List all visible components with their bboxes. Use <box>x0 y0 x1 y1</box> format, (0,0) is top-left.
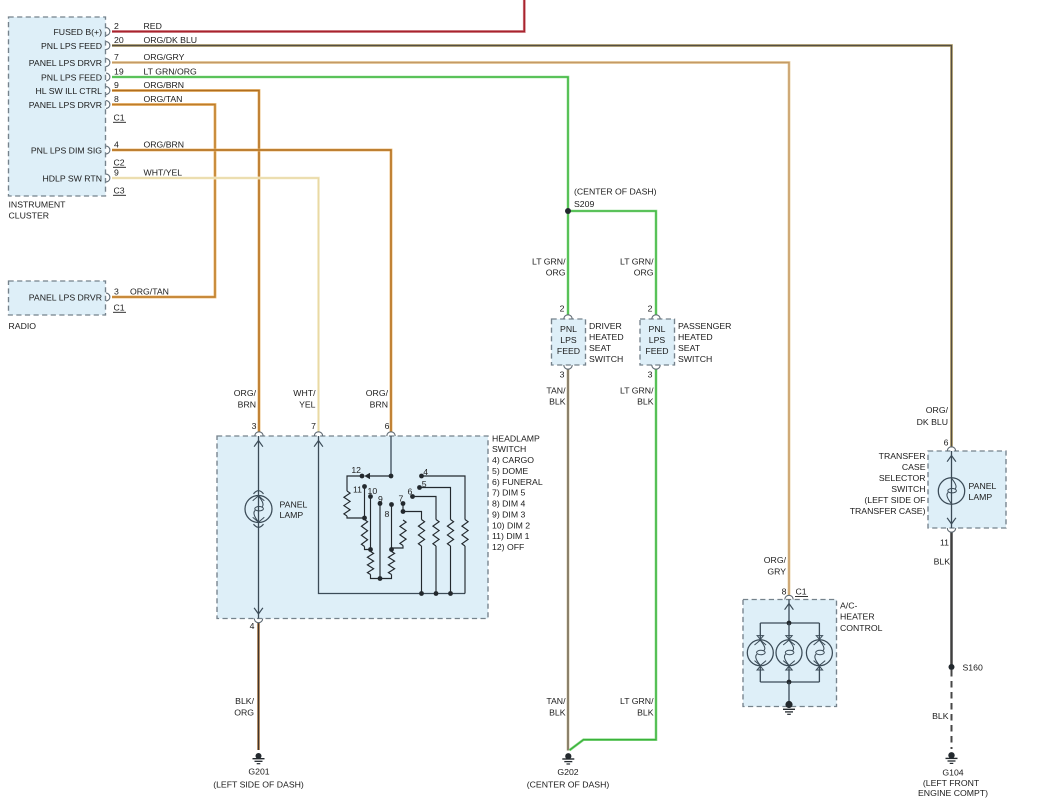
cluster connector C1 label <box>113 113 126 123</box>
arrow up at A/C pin 8 <box>785 604 794 610</box>
svg-text:6: 6 <box>385 421 390 431</box>
wire ORG/BRN from cluster pin 9 to headlamp switch pin 3 <box>112 91 259 432</box>
svg-text:CASE: CASE <box>902 462 926 472</box>
headlamp switch internal wire pin 6 to wiper <box>390 436 392 476</box>
svg-text:11: 11 <box>940 537 949 547</box>
A/C bottom rail <box>760 666 819 685</box>
passenger seat switch PNL LPS FEED text <box>645 324 668 356</box>
wire BLK dashed from S160 to ground G104 <box>951 670 953 749</box>
svg-text:BRN: BRN <box>370 400 388 410</box>
label S209 (CENTER OF DASH) <box>574 187 657 210</box>
label ORG/BRN above pin 6 <box>366 388 389 410</box>
junction 8 <box>389 547 394 552</box>
contact 5 <box>417 479 427 490</box>
svg-text:PANEL LPS DRVR: PANEL LPS DRVR <box>29 100 102 110</box>
splice S160 <box>949 664 955 670</box>
transfer case internal wire <box>951 451 953 528</box>
radio connector C1 label <box>113 303 126 313</box>
driver seat switch caption <box>589 321 624 364</box>
panel lamp caption <box>280 500 308 521</box>
wire ORG/BRN from cluster pin 4 to headlamp switch pin 6 <box>112 150 391 432</box>
svg-text:PNL: PNL <box>649 324 666 334</box>
transfer case pin 11 <box>940 528 956 547</box>
resistor 12-11 <box>344 491 350 516</box>
A/C-heater control caption <box>840 601 883 634</box>
svg-text:BLK: BLK <box>932 711 949 721</box>
svg-text:HL SW ILL CTRL: HL SW ILL CTRL <box>36 86 103 96</box>
svg-text:7: 7 <box>399 494 404 504</box>
wire resistor 6 to bus <box>434 546 439 596</box>
svg-text:BLK: BLK <box>549 396 566 406</box>
svg-text:YEL: YEL <box>299 400 316 410</box>
wire resistor to junction 9 <box>371 575 381 579</box>
transfer case panel lamp caption <box>969 481 997 502</box>
transfer case selector switch box <box>928 451 1006 528</box>
svg-text:10) DIM 2: 10) DIM 2 <box>492 520 530 530</box>
wire contact 5 to resistor <box>420 488 451 520</box>
svg-text:A/C-: A/C- <box>840 601 857 611</box>
A/C top rail <box>760 621 819 626</box>
svg-text:HEATED: HEATED <box>678 332 713 342</box>
svg-text:RED: RED <box>144 21 162 31</box>
wire resistor 5 to bus <box>448 546 453 596</box>
svg-text:SWITCH: SWITCH <box>589 354 623 364</box>
svg-text:GRY: GRY <box>767 567 786 577</box>
A/C internal ground wire <box>788 682 790 705</box>
svg-text:12: 12 <box>351 465 361 475</box>
svg-text:C1: C1 <box>114 113 125 123</box>
cluster pin 9 HDLP SW RTN / WHT/YEL <box>42 168 182 184</box>
svg-text:HEATER: HEATER <box>840 612 875 622</box>
svg-text:SWITCH: SWITCH <box>891 484 925 494</box>
cluster pin 19 PNL LPS FEED / LT GRN/ORG <box>41 67 197 83</box>
label S160 <box>963 663 983 673</box>
contact 6 <box>408 487 415 499</box>
wire TAN/BLK from driver heated seat switch pin 3 to ground G202 <box>567 369 570 750</box>
svg-text:7: 7 <box>114 52 119 62</box>
arrow down at headlamp pin 4 <box>254 608 263 614</box>
wire LT GRN/ORG branch from S209 to passenger heated seat switch pin 2 <box>568 211 656 315</box>
svg-text:ENGINE COMPT): ENGINE COMPT) <box>918 788 988 798</box>
svg-text:3: 3 <box>648 369 653 379</box>
svg-text:6: 6 <box>944 437 949 447</box>
contact 11 <box>353 484 367 494</box>
label G202 <box>527 767 610 790</box>
svg-text:BLK/: BLK/ <box>235 696 254 706</box>
svg-text:10: 10 <box>368 486 378 496</box>
svg-text:LPS: LPS <box>560 335 577 345</box>
svg-text:LT GRN/: LT GRN/ <box>620 256 654 266</box>
resistor contact 7 branch <box>418 520 424 547</box>
label WHT/YEL above pin 7 <box>293 388 316 410</box>
svg-text:DK BLU: DK BLU <box>917 417 948 427</box>
svg-text:TRANSFER: TRANSFER <box>879 451 926 461</box>
svg-text:7: 7 <box>311 421 316 431</box>
svg-text:SWITCH: SWITCH <box>678 354 712 364</box>
ground G201 <box>253 753 265 764</box>
svg-text:BLK: BLK <box>637 396 654 406</box>
label LT GRN/ORG left branch <box>532 256 566 277</box>
wire resistor 4 to bus <box>464 546 466 594</box>
cluster pin 2 FUSED B(+) / RED <box>53 21 161 37</box>
svg-text:8: 8 <box>114 94 119 104</box>
svg-text:SWITCH: SWITCH <box>492 444 526 454</box>
svg-text:HDLP SW RTN: HDLP SW RTN <box>42 173 102 183</box>
svg-text:2: 2 <box>560 304 565 314</box>
svg-text:8) DIM 4: 8) DIM 4 <box>492 499 525 509</box>
contact 12 <box>351 465 364 478</box>
cluster pin 4 PNL LPS DIM SIG / ORG/BRN <box>31 140 184 156</box>
svg-text:HEATED: HEATED <box>589 332 624 342</box>
radio pin 3 PANEL LPS DRVR / ORG/TAN <box>29 287 169 303</box>
driver seat switch pin 2 <box>560 304 573 320</box>
label G104 <box>918 767 988 798</box>
wire ORG/GRY from cluster pin 7 to A/C-heater control pin 8 <box>112 63 789 596</box>
svg-text:ORG/: ORG/ <box>926 405 949 415</box>
headlamp switch pin 4 <box>250 619 263 632</box>
svg-text:PNL LPS FEED: PNL LPS FEED <box>41 41 102 51</box>
resistor 11-10 <box>361 520 367 547</box>
label BLK upper right <box>934 557 951 567</box>
svg-text:11) DIM 1: 11) DIM 1 <box>492 531 530 541</box>
svg-text:ORG/TAN: ORG/TAN <box>130 287 169 297</box>
svg-text:C3: C3 <box>114 186 125 196</box>
label LT GRN/BLK lower <box>620 696 654 718</box>
svg-text:(LEFT FRONT: (LEFT FRONT <box>923 778 980 788</box>
svg-text:BLK: BLK <box>934 557 951 567</box>
splice S209 <box>565 208 571 214</box>
cluster pin 20 PNL LPS FEED / ORG/DK BLU <box>41 35 197 51</box>
svg-text:3: 3 <box>560 369 565 379</box>
svg-text:BLK: BLK <box>549 708 566 718</box>
arrow up at transfer pin 6 <box>947 456 956 462</box>
svg-text:TRANSFER CASE): TRANSFER CASE) <box>850 506 926 516</box>
wire resistor to bus <box>419 546 424 596</box>
svg-text:(LEFT SIDE OF: (LEFT SIDE OF <box>864 495 925 505</box>
label BLK lower right <box>932 711 949 721</box>
svg-text:6) FUNERAL: 6) FUNERAL <box>492 477 543 487</box>
wire resistor 8-9 to junction 9 <box>380 575 392 579</box>
svg-text:FUSED B(+): FUSED B(+) <box>53 27 102 37</box>
headlamp switch box <box>217 436 488 619</box>
wire WHT/YEL from cluster pin 9 C3 to headlamp switch pin 7 <box>112 178 319 432</box>
svg-text:4) CARGO: 4) CARGO <box>492 455 534 465</box>
svg-text:3: 3 <box>114 287 119 297</box>
illumination lamp 2 <box>776 636 802 670</box>
wire junction 7 to resistor <box>403 512 422 520</box>
svg-text:(LEFT SIDE OF DASH): (LEFT SIDE OF DASH) <box>213 780 304 790</box>
svg-text:SEAT: SEAT <box>589 343 612 353</box>
label LT GRN/ORG right branch <box>620 256 654 277</box>
svg-text:LAMP: LAMP <box>280 510 304 520</box>
passenger seat switch pin 2 <box>648 304 661 320</box>
arrow down at transfer pin 11 <box>947 518 956 524</box>
svg-text:LT GRN/: LT GRN/ <box>620 385 654 395</box>
svg-text:8: 8 <box>385 509 390 519</box>
arrow up at headlamp pin 7 <box>314 441 323 447</box>
headlamp switch pin 6 <box>385 421 396 436</box>
svg-text:19: 19 <box>114 67 124 77</box>
label BLK/ORG <box>234 696 254 718</box>
contact 9 <box>378 494 383 506</box>
driver heated seat switch box <box>552 319 586 365</box>
svg-text:G202: G202 <box>557 767 578 777</box>
svg-text:ORG: ORG <box>634 267 654 277</box>
label TAN/BLK lower <box>546 696 566 718</box>
svg-text:FEED: FEED <box>557 346 580 356</box>
headlamp switch caption list <box>492 433 543 552</box>
svg-text:3: 3 <box>252 421 257 431</box>
illumination lamp 1 <box>747 636 773 670</box>
svg-text:PNL LPS DIM SIG: PNL LPS DIM SIG <box>31 145 102 155</box>
svg-text:WHT/YEL: WHT/YEL <box>144 168 183 178</box>
wire contact 12 to resistor <box>347 476 362 491</box>
svg-text:FEED: FEED <box>645 346 668 356</box>
svg-text:ORG/: ORG/ <box>764 555 787 565</box>
junction 11 <box>362 516 367 521</box>
wire contact 11 down <box>364 487 366 519</box>
illumination lamp 3 <box>806 636 832 670</box>
label LT GRN/BLK upper <box>620 385 654 406</box>
arrow up at headlamp pin 3 <box>254 441 263 447</box>
radio connector box <box>9 281 106 315</box>
resistor 8-9 <box>388 552 394 575</box>
cluster pin 7 PANEL LPS DRVR / ORG/GRY <box>29 52 185 68</box>
svg-text:9: 9 <box>114 80 119 90</box>
svg-text:11: 11 <box>353 485 362 495</box>
svg-text:S160: S160 <box>963 663 983 673</box>
svg-text:PANEL: PANEL <box>280 500 308 510</box>
svg-text:2: 2 <box>648 304 653 314</box>
headlamp switch internal wire pin3 to pin4 <box>258 436 260 619</box>
label TAN/BLK upper <box>546 385 566 406</box>
svg-text:TAN/: TAN/ <box>546 385 566 395</box>
headlamp switch pin 7 <box>311 421 323 436</box>
svg-text:6: 6 <box>408 487 413 497</box>
wire contact 8 down <box>391 505 393 550</box>
resistor contact 5 branch <box>447 520 453 547</box>
svg-text:ORG/BRN: ORG/BRN <box>144 140 185 150</box>
contact 7 <box>399 494 406 506</box>
wire contact 9 down <box>379 504 381 579</box>
svg-text:LT GRN/: LT GRN/ <box>532 256 566 266</box>
driver seat switch PNL LPS FEED text <box>557 324 580 356</box>
svg-text:CLUSTER: CLUSTER <box>9 211 50 221</box>
cluster pin 8 PANEL LPS DRVR / ORG/TAN <box>29 94 183 110</box>
svg-text:C2: C2 <box>114 158 125 168</box>
svg-text:TAN/: TAN/ <box>546 696 566 706</box>
wire resistor 7-8 to junction 8 <box>392 546 404 550</box>
svg-text:BLK: BLK <box>637 708 654 718</box>
svg-text:ORG/: ORG/ <box>234 388 257 398</box>
svg-text:S209: S209 <box>574 199 594 209</box>
headlamp switch pin 3 <box>252 421 264 436</box>
passenger seat switch pin 3 <box>648 365 661 379</box>
svg-text:4: 4 <box>114 140 119 150</box>
wire BLK/ORG from headlamp switch pin 4 to ground G201 <box>257 623 260 750</box>
svg-text:7) DIM 5: 7) DIM 5 <box>492 488 525 498</box>
svg-text:ORG: ORG <box>234 708 254 718</box>
svg-text:ORG/DK BLU: ORG/DK BLU <box>144 35 198 45</box>
label G201 <box>213 767 304 790</box>
resistor 7-8 <box>400 520 406 546</box>
svg-text:WHT/: WHT/ <box>293 388 316 398</box>
headlamp switch internal wire pin7 to resistor bus <box>319 436 466 594</box>
wire contact 10 down <box>370 497 372 550</box>
wire ORG/DK BLU from cluster pin 20 to transfer case selector switch pin 6 <box>112 46 952 448</box>
svg-text:PANEL LPS DRVR: PANEL LPS DRVR <box>29 58 102 68</box>
contact 8 <box>385 502 394 519</box>
resistor contact 4 branch <box>462 520 468 547</box>
wiper arm from pin 6 to contact 12 <box>365 473 393 479</box>
wire contact 7 to junction 7 <box>402 504 404 512</box>
svg-text:DRIVER: DRIVER <box>589 321 622 331</box>
wire contact 4 to resistor <box>422 476 466 520</box>
label ORG/DK BLU <box>917 405 949 427</box>
junction 9 <box>378 576 383 581</box>
svg-text:20: 20 <box>114 35 124 45</box>
svg-text:ORG/BRN: ORG/BRN <box>144 80 185 90</box>
A/C internal feed wire <box>788 600 790 624</box>
svg-text:5) DOME: 5) DOME <box>492 466 528 476</box>
svg-text:LAMP: LAMP <box>969 492 993 502</box>
svg-text:PANEL LPS DRVR: PANEL LPS DRVR <box>29 292 102 302</box>
svg-text:G201: G201 <box>248 767 269 777</box>
svg-text:8: 8 <box>782 587 787 597</box>
cluster pin 9 HL SW ILL CTRL / ORG/BRN <box>36 80 185 96</box>
radio caption <box>9 321 37 331</box>
wire resistor to junction 11 <box>347 516 365 518</box>
svg-text:SELECTOR: SELECTOR <box>879 473 926 483</box>
cluster connector C3 label <box>113 186 126 196</box>
svg-text:C1: C1 <box>114 303 125 313</box>
instrument cluster caption <box>9 200 67 221</box>
svg-text:4: 4 <box>423 467 428 477</box>
svg-text:PNL: PNL <box>560 324 577 334</box>
wire resistor to junction 10 <box>365 547 371 550</box>
wire contact 6 to resistor <box>413 497 437 520</box>
svg-text:LPS: LPS <box>649 335 666 345</box>
svg-text:C1: C1 <box>796 587 807 597</box>
svg-text:9: 9 <box>378 494 383 504</box>
panel lamp (headlamp switch) <box>245 491 272 528</box>
svg-text:9: 9 <box>114 168 119 178</box>
cluster connector C2 label <box>113 158 126 168</box>
A/C internal ground <box>783 701 795 714</box>
wire RED from instrument cluster pin 2 to top edge <box>112 0 524 32</box>
A/C-heater control box <box>743 600 837 707</box>
ground G202 <box>562 753 574 764</box>
svg-text:9) DIM 3: 9) DIM 3 <box>492 509 525 519</box>
svg-text:INSTRUMENT: INSTRUMENT <box>9 200 67 210</box>
svg-text:(CENTER OF DASH): (CENTER OF DASH) <box>527 780 610 790</box>
svg-text:G104: G104 <box>942 767 963 777</box>
transfer case pin 6 <box>944 437 956 451</box>
passenger heated seat switch box <box>640 319 675 365</box>
svg-text:ORG/TAN: ORG/TAN <box>144 94 183 104</box>
resistor 10-9 <box>367 552 373 575</box>
contact 10 <box>368 486 378 499</box>
svg-text:PANEL: PANEL <box>969 481 997 491</box>
svg-text:LT GRN/: LT GRN/ <box>620 696 654 706</box>
svg-text:ORG: ORG <box>546 267 566 277</box>
wire ORG/TAN from cluster pin 8 to radio pin 3 <box>112 105 215 298</box>
svg-text:ORG/GRY: ORG/GRY <box>144 52 185 62</box>
resistor contact 6 branch <box>433 520 439 547</box>
svg-text:CONTROL: CONTROL <box>840 623 883 633</box>
svg-text:PNL LPS FEED: PNL LPS FEED <box>41 72 102 82</box>
svg-text:12) OFF: 12) OFF <box>492 542 524 552</box>
wire LT GRN/BLK from passenger heated seat switch pin 3 to ground G202 <box>570 369 657 750</box>
wire LT GRN/ORG from cluster pin 19 through splice S209 to driver heated seat switch pin 2 <box>112 77 568 315</box>
label ORG/BRN above pin 3 <box>234 388 257 410</box>
passenger seat switch caption <box>678 321 731 364</box>
svg-text:2: 2 <box>114 21 119 31</box>
wire BLK from transfer case selector switch pin 11 to splice S160 <box>950 533 953 668</box>
svg-text:BRN: BRN <box>238 400 256 410</box>
svg-text:LT GRN/ORG: LT GRN/ORG <box>144 67 197 77</box>
svg-text:HEADLAMP: HEADLAMP <box>492 433 540 443</box>
instrument cluster connector box <box>9 17 106 196</box>
svg-text:SEAT: SEAT <box>678 343 701 353</box>
A/C pin 8 and C1 <box>782 587 808 600</box>
svg-text:PASSENGER: PASSENGER <box>678 321 731 331</box>
A/C lamp drop wires <box>760 623 819 640</box>
transfer case caption <box>850 451 926 516</box>
driver seat switch pin 3 <box>560 365 573 379</box>
svg-text:(CENTER OF DASH): (CENTER OF DASH) <box>574 187 657 197</box>
junction 7 <box>401 509 406 514</box>
contact 4 <box>419 467 428 479</box>
junction 10 <box>368 547 373 552</box>
svg-text:ORG/: ORG/ <box>366 388 389 398</box>
ground G104 <box>946 752 958 763</box>
svg-text:4: 4 <box>250 621 255 631</box>
label ORG/GRY <box>764 555 787 577</box>
panel lamp (transfer case) <box>938 478 964 504</box>
svg-text:RADIO: RADIO <box>9 321 37 331</box>
